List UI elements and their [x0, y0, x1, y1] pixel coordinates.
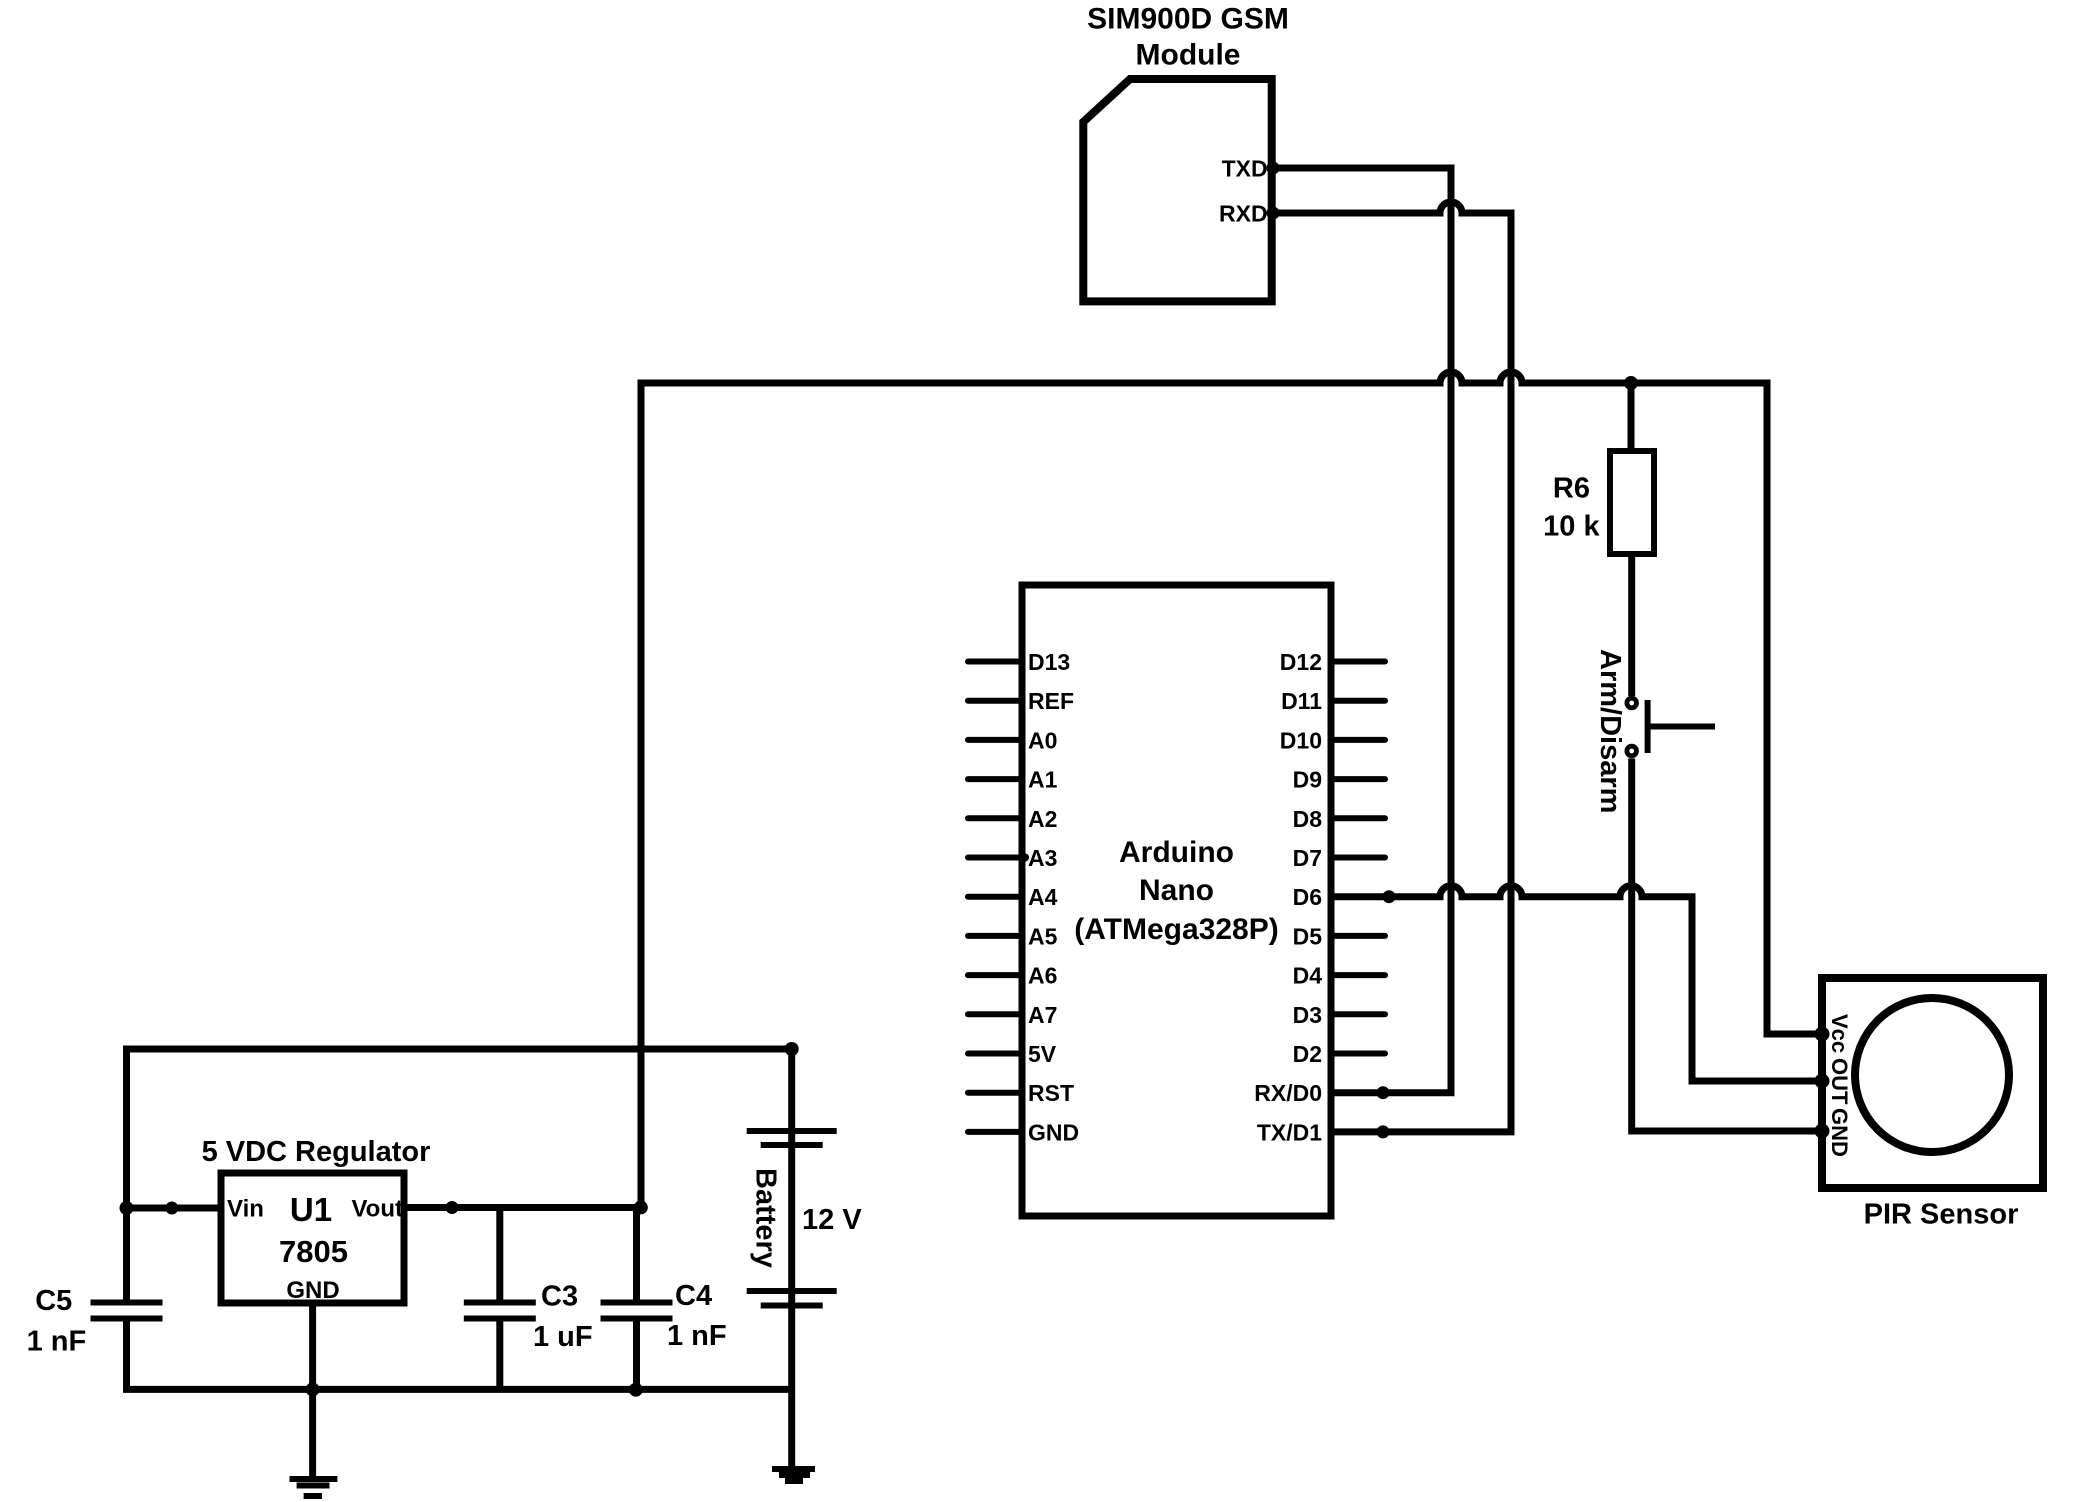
- capacitor C3 plates: [464, 1303, 536, 1319]
- wire C4 vertical: [633, 1207, 640, 1389]
- wire RXD from GSM down to Arduino TX/D1 (hop over TXD vertical): [1273, 202, 1511, 1132]
- svg-text:D11: D11: [1281, 688, 1322, 714]
- battery BT1 plates: [747, 1131, 837, 1306]
- svg-text:10 k: 10 k: [1543, 511, 1600, 543]
- svg-text:Vin: Vin: [227, 1196, 264, 1223]
- svg-text:Vcc: Vcc: [1827, 1014, 1852, 1053]
- svg-text:1 nF: 1 nF: [667, 1320, 727, 1352]
- svg-text:D13: D13: [1028, 649, 1070, 675]
- svg-text:PIR Sensor: PIR Sensor: [1864, 1199, 2019, 1231]
- Arduino pin stubs left: [968, 662, 1022, 1132]
- Arduino right pin labels: [1254, 649, 1322, 1145]
- text labels: [1074, 3, 1289, 947]
- svg-text:TXD: TXD: [1222, 156, 1268, 182]
- svg-text:RXD: RXD: [1219, 201, 1268, 227]
- svg-text:C4: C4: [675, 1280, 712, 1312]
- svg-text:RX/D0: RX/D0: [1254, 1080, 1322, 1106]
- PIR sensor lens circle: [1855, 998, 2009, 1152]
- pushbutton SW1 actuator: [1648, 700, 1715, 753]
- svg-text:A7: A7: [1028, 1002, 1057, 1028]
- svg-text:C5: C5: [35, 1285, 72, 1317]
- svg-text:D4: D4: [1293, 963, 1323, 989]
- svg-text:GND: GND: [1827, 1108, 1852, 1157]
- Arduino left pin labels: [1028, 649, 1079, 1145]
- svg-text:7805: 7805: [279, 1234, 348, 1269]
- ground symbol (regulator): [290, 1479, 338, 1496]
- svg-text:GND: GND: [286, 1277, 339, 1304]
- wire Vout pin wire: [404, 1204, 641, 1211]
- wire R6 bottom to switch: [1628, 557, 1635, 696]
- capacitor C4 plates: [601, 1303, 673, 1319]
- svg-text:12 V: 12 V: [802, 1204, 862, 1236]
- PIR pin labels (rotated): [1827, 1014, 1852, 1157]
- svg-text:A1: A1: [1028, 767, 1058, 793]
- resistor R6 body: [1610, 451, 1654, 554]
- voltage regulator U1 box: [221, 1173, 404, 1303]
- wire TXD from GSM down to Arduino RX/D0: [1273, 168, 1451, 1093]
- svg-text:D6: D6: [1293, 884, 1322, 910]
- GSM module U2 (SIM900D) box: [1083, 79, 1271, 301]
- svg-text:Arm/Disarm: Arm/Disarm: [1594, 649, 1626, 813]
- svg-text:D9: D9: [1293, 767, 1322, 793]
- wire switch bottom down to PIR GND: [1632, 759, 1822, 1132]
- svg-text:D12: D12: [1280, 649, 1322, 675]
- svg-text:GND: GND: [1028, 1119, 1079, 1145]
- svg-text:1 nF: 1 nF: [27, 1326, 87, 1358]
- svg-text:R6: R6: [1553, 473, 1590, 505]
- svg-text:A5: A5: [1028, 923, 1058, 949]
- ground symbol (battery): [772, 1469, 815, 1481]
- wire regulator GND down: [309, 1306, 316, 1476]
- PIR sensor box: [1822, 978, 2043, 1188]
- wire C5 bottom to ground rail to battery: [127, 1322, 792, 1390]
- wire battery vertical: [788, 1049, 795, 1466]
- svg-text:A2: A2: [1028, 806, 1057, 832]
- svg-text:D7: D7: [1293, 845, 1322, 871]
- svg-text:Module: Module: [1136, 39, 1241, 72]
- svg-text:1 uF: 1 uF: [533, 1321, 593, 1353]
- svg-text:A3: A3: [1028, 845, 1057, 871]
- svg-text:D10: D10: [1280, 727, 1322, 753]
- svg-text:Vout: Vout: [351, 1196, 403, 1223]
- svg-text:TX/D1: TX/D1: [1257, 1119, 1322, 1145]
- wire C3 vertical: [496, 1208, 503, 1390]
- wire Vin pin wire: [127, 1205, 222, 1212]
- pushbutton SW1 terminal rings: [1627, 698, 1637, 708]
- svg-text:OUT: OUT: [1827, 1058, 1852, 1105]
- svg-text:C3: C3: [541, 1281, 578, 1313]
- svg-text:REF: REF: [1028, 688, 1074, 714]
- svg-text:(ATMega328P): (ATMega328P): [1074, 913, 1279, 946]
- svg-text:A4: A4: [1028, 884, 1058, 910]
- svg-text:D5: D5: [1293, 923, 1323, 949]
- svg-text:5V: 5V: [1028, 1041, 1057, 1067]
- wire R6 top branch: [1628, 383, 1635, 448]
- svg-text:D2: D2: [1293, 1041, 1322, 1067]
- svg-text:RST: RST: [1028, 1080, 1074, 1106]
- resistor labels: [1543, 473, 1600, 543]
- svg-text:Nano: Nano: [1139, 874, 1214, 907]
- wire D6 net with hops to PIR OUT: [1331, 886, 1822, 1081]
- capacitor labels: [27, 1280, 727, 1358]
- svg-text:D8: D8: [1293, 806, 1323, 832]
- wire main 5V bus with hops, from Vout node up-right down to PIR Vcc: [641, 372, 1822, 1207]
- svg-text:U1: U1: [290, 1191, 332, 1228]
- capacitor C5 plates: [91, 1303, 163, 1319]
- svg-text:SIM900D GSM: SIM900D GSM: [1087, 3, 1289, 36]
- svg-text:5 VDC Regulator: 5 VDC Regulator: [202, 1136, 431, 1168]
- svg-text:Arduino: Arduino: [1119, 836, 1234, 869]
- svg-text:Battery: Battery: [750, 1168, 782, 1268]
- svg-text:A0: A0: [1028, 727, 1057, 753]
- svg-text:A6: A6: [1028, 963, 1057, 989]
- Arduino Nano U3 box: [1022, 585, 1331, 1216]
- wire top rail of supply section and C5 left branch: [127, 1049, 792, 1300]
- svg-text:D3: D3: [1293, 1002, 1322, 1028]
- Arduino pin stubs right: [1331, 662, 1385, 1054]
